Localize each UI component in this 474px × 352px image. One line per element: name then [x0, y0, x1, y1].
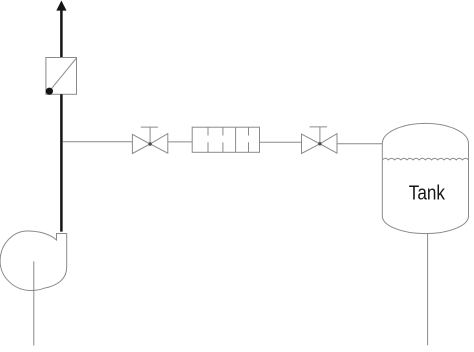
damper pivot dot	[46, 88, 53, 95]
tank vessel outline	[382, 123, 468, 233]
arrow (flow out, top)	[56, 1, 66, 11]
valve V1 (globe valve)	[132, 127, 167, 153]
damper/valve box symbol	[46, 58, 77, 95]
wire: thick pipe from damper box down to pump outlet	[60, 94, 63, 231]
wire: pump drain line	[33, 261, 35, 345]
wire: thick pipe from arrow to damper box	[60, 9, 63, 58]
wire: pipe from valve V1 to filter	[168, 141, 192, 143]
valve V1 center dot	[148, 142, 151, 145]
svg-text:Tank: Tank	[409, 181, 446, 204]
wire: tank bottom outlet line	[427, 234, 429, 346]
tank liquid level wavy line	[382, 158, 468, 160]
pump (centrifugal blower)	[0, 231, 67, 291]
wire: pipe from filter to valve V2	[260, 141, 302, 143]
wire: pipe from riser to valve V1	[63, 141, 133, 143]
valve V2 center dot	[318, 142, 321, 145]
wire: pipe from valve V2 to tank	[337, 143, 382, 145]
filter / strainer	[192, 127, 259, 152]
valve V2 (globe valve)	[302, 127, 338, 154]
